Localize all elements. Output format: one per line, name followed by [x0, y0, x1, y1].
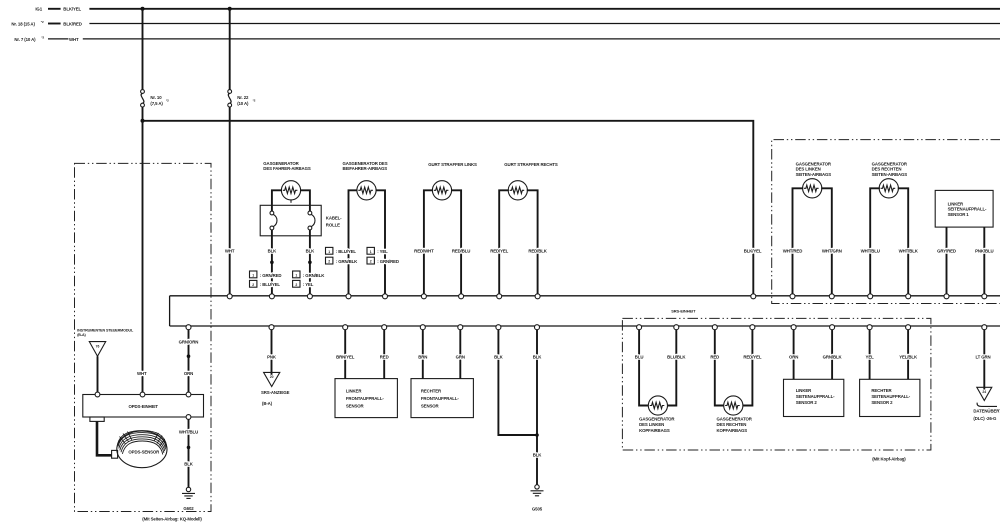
svg-text:1: 1 [328, 250, 330, 254]
svg-text:GASGENERATOR: GASGENERATOR [796, 161, 832, 166]
SRS-Einheit left edge [169, 296, 171, 326]
wire WHT/BLK to SRS [898, 188, 908, 294]
svg-text:SEITENAUFPRALL-: SEITENAUFPRALL- [871, 394, 910, 399]
svg-text:RECHTER: RECHTER [871, 388, 892, 393]
wire PNK to SRS-Anzeige [271, 328, 273, 374]
wire WHT to OPDS-Einheit [142, 121, 144, 392]
ground G505 [535, 485, 539, 489]
wire RED/BLK to SRS [527, 190, 538, 294]
svg-text:ORN: ORN [789, 355, 798, 360]
squib resistor (right side airbag) [879, 179, 898, 198]
wire BLU/BLK [667, 329, 676, 405]
wire RED/YEL [743, 329, 753, 405]
wire RED/BLU to SRS [451, 190, 461, 294]
stub wire Nr.18 [48, 23, 61, 25]
wire BLK driver right to SRS [309, 230, 311, 294]
SRS-Einheit top edge [170, 295, 1000, 297]
node junction bus/branch2 [228, 7, 232, 11]
svg-text:: GRN/BLK: : GRN/BLK [336, 259, 358, 264]
pin connector OPDS bottom [186, 415, 191, 420]
wire BRN [422, 328, 424, 378]
svg-text:RED/YEL: RED/YEL [490, 248, 508, 253]
svg-text:76: 76 [96, 344, 100, 348]
svg-text:RED/BLU: RED/BLU [452, 248, 470, 253]
svg-text:G505: G505 [532, 507, 543, 512]
svg-text:(Mit Kopf-Airbag): (Mit Kopf-Airbag) [872, 456, 906, 461]
squib resistor (right head airbag) [724, 396, 743, 415]
svg-text:SENSOR 2: SENSOR 2 [796, 400, 818, 405]
svg-text:INSTRUMENTEN STEUERMODUL: INSTRUMENTEN STEUERMODUL [77, 328, 134, 332]
svg-text:GASGENERATOR DES: GASGENERATOR DES [343, 161, 388, 166]
svg-text:SENSOR 2: SENSOR 2 [871, 400, 893, 405]
node splice GRN/ORN-ORN [187, 354, 191, 358]
pin connectors SRS top edge [227, 294, 987, 299]
stub wire Nr.7 [48, 38, 68, 40]
svg-text:SENSOR 1: SENSOR 1 [948, 212, 970, 217]
svg-text:GRN/BLK: GRN/BLK [823, 355, 843, 360]
wire WHT/RED to SRS [793, 188, 804, 294]
svg-text:SRS-ANZEIGE: SRS-ANZEIGE [261, 390, 290, 395]
wire bus WHT (Nr. 7) [83, 38, 1000, 40]
svg-text:: GRN/BLK: : GRN/BLK [303, 273, 325, 278]
svg-text:WHT/RED: WHT/RED [783, 248, 802, 253]
wire bus BLK/YEL (IG1) [89, 8, 1000, 10]
svg-text:WHT/BLU: WHT/BLU [861, 248, 880, 253]
svg-text:: YEL: : YEL [377, 249, 388, 254]
svg-text:: YEL: : YEL [303, 282, 314, 287]
fuse Nr. 10 (7,5 A) [141, 90, 170, 107]
wire PNK/BLU to SRS [983, 227, 985, 294]
svg-text:: BLU/YEL: : BLU/YEL [336, 249, 357, 254]
squib resistor (driver airbag) [281, 181, 300, 200]
svg-text:IG1: IG1 [35, 7, 42, 12]
svg-text:BLK: BLK [184, 461, 194, 466]
svg-text:24: 24 [982, 390, 986, 394]
svg-text:BLK/YEL: BLK/YEL [63, 7, 81, 12]
svg-text:PNK: PNK [267, 355, 277, 360]
wire BLK right to ground [536, 328, 538, 484]
svg-text:1: 1 [370, 250, 372, 254]
svg-text:SEITEN-AIRBAGS: SEITEN-AIRBAGS [872, 172, 908, 177]
svg-text:2: 2 [370, 260, 372, 264]
svg-text:BLK: BLK [268, 248, 278, 253]
wire to OPDS-Einheit [97, 356, 99, 392]
svg-text:BLK/RED: BLK/RED [63, 21, 81, 26]
wire GRN [459, 328, 461, 378]
svg-text:RED/WHT: RED/WHT [414, 248, 434, 253]
wire bus BLK/RED (Nr. 18) [89, 23, 1000, 25]
pin connectors SRS bottom edge [186, 325, 987, 330]
pin labels driver right [293, 271, 326, 287]
svg-text:YEL: YEL [866, 355, 875, 360]
svg-text:*2: *2 [253, 99, 256, 103]
svg-text:*2: *2 [166, 99, 169, 103]
svg-text:LINKER: LINKER [796, 388, 812, 393]
svg-text:DES RECHTEN: DES RECHTEN [717, 422, 747, 427]
svg-text:2: 2 [252, 283, 254, 287]
wire passenger squib right to SRS [376, 190, 386, 294]
svg-text:WHT/BLK: WHT/BLK [899, 248, 919, 253]
wire driver squib right [300, 190, 310, 212]
wire BLU [639, 329, 648, 405]
svg-text:LINKER: LINKER [346, 388, 362, 393]
svg-text:WHT: WHT [69, 37, 79, 42]
wire RED/YEL to SRS [499, 190, 509, 294]
wire WHT/BLU to SRS [870, 188, 880, 294]
node splice driver left [270, 261, 274, 265]
svg-text:GRN: GRN [456, 355, 465, 360]
wire stub squib to cable reel [290, 200, 292, 203]
harness to sensor [97, 421, 112, 455]
svg-text:GASGENERATOR: GASGENERATOR [639, 416, 675, 421]
connector triangle 20 (SRS-Anzeige) [264, 372, 280, 386]
svg-text:*2: *2 [41, 36, 44, 40]
pin labels passenger left [326, 247, 359, 264]
squib resistor (tensioner left) [432, 181, 451, 200]
node junction bus/branch1 [141, 7, 145, 11]
svg-text:GRY/RED: GRY/RED [937, 248, 956, 253]
svg-text:BLU/BLK: BLU/BLK [667, 355, 686, 360]
svg-text:DATENÜBERTR: DATENÜBERTR [973, 408, 1000, 413]
svg-text:WHT/GRN: WHT/GRN [822, 248, 842, 253]
svg-text:BLK: BLK [533, 453, 543, 458]
svg-text:RED/YEL: RED/YEL [743, 355, 761, 360]
svg-text:DES FAHRER-AIRBAGS: DES FAHRER-AIRBAGS [263, 166, 311, 171]
svg-text:RED: RED [380, 355, 389, 360]
wire YEL/BLK [907, 329, 909, 379]
cable reel (Kabelrolle) [260, 205, 342, 236]
wire branch1 to junction [142, 107, 144, 121]
svg-text:OPDS-EINHEIT: OPDS-EINHEIT [128, 404, 158, 409]
SRS-Einheit bottom edge [170, 325, 1000, 327]
svg-text:PNK/BLU: PNK/BLU [975, 248, 993, 253]
wire GRY/RED to SRS [946, 227, 948, 294]
wire RED [383, 328, 385, 378]
svg-text:(DLC) -26-G: (DLC) -26-G [973, 416, 997, 421]
svg-text:YEL/BLK: YEL/BLK [899, 355, 918, 360]
bracket [977, 403, 997, 407]
svg-text:Nr. 10: Nr. 10 [150, 95, 162, 100]
wire driver squib left [272, 190, 282, 212]
OPDS sensor pad [117, 431, 167, 468]
node splice BLK [535, 433, 539, 437]
stub wire IG1 [48, 8, 61, 10]
svg-text:GASGENERATOR: GASGENERATOR [872, 161, 908, 166]
svg-text:1: 1 [295, 273, 297, 277]
svg-text:Nr. 7 (10 A): Nr. 7 (10 A) [14, 37, 36, 42]
wire branch2 upper [229, 9, 231, 90]
wire WHT to SRS unit [229, 107, 231, 294]
svg-text:WHT: WHT [137, 371, 147, 376]
svg-text:GASGENERATOR: GASGENERATOR [717, 416, 753, 421]
squib resistor (tensioner right) [508, 181, 527, 200]
svg-text:BLK: BLK [306, 248, 316, 253]
svg-text:RECHTER: RECHTER [421, 388, 442, 393]
svg-text:RED/BLK: RED/BLK [528, 248, 547, 253]
svg-text:GRN/ORN: GRN/ORN [179, 339, 199, 344]
svg-text:SENSOR: SENSOR [346, 403, 365, 408]
svg-text:BLK/YEL: BLK/YEL [744, 248, 762, 253]
svg-text:1: 1 [252, 273, 254, 277]
wire branch1 upper [142, 9, 144, 90]
svg-text:(10 A): (10 A) [237, 101, 249, 106]
svg-text:: BLU/YEL: : BLU/YEL [260, 282, 281, 287]
connector triangle 24 (DLC) [977, 387, 992, 400]
svg-text:(7,5 A): (7,5 A) [150, 101, 163, 106]
svg-text:G602: G602 [183, 506, 194, 511]
pin labels passenger right [367, 247, 399, 264]
svg-text:SEITENAUFPRALL-: SEITENAUFPRALL- [796, 394, 835, 399]
svg-text:GURT STRAFFER RECHTS: GURT STRAFFER RECHTS [504, 162, 558, 167]
svg-text:BLK: BLK [533, 355, 543, 360]
wire BLK left [498, 328, 537, 435]
svg-text:BLK: BLK [494, 355, 504, 360]
wire WHT/BLU OPDS to ground [188, 419, 190, 487]
svg-text:2: 2 [295, 283, 297, 287]
svg-text:LT GRN: LT GRN [975, 355, 990, 360]
svg-text:2: 2 [328, 260, 330, 264]
svg-text:SEITEN-AIRBAGS: SEITEN-AIRBAGS [796, 172, 832, 177]
svg-text:(B-A): (B-A) [262, 401, 273, 406]
svg-text:KOPFAIRBAGS: KOPFAIRBAGS [639, 428, 670, 433]
wire WHT/GRN to SRS [821, 188, 832, 294]
pin labels driver left [250, 271, 282, 287]
svg-text:GURT STRAFFER LINKS: GURT STRAFFER LINKS [428, 162, 477, 167]
svg-text:FRONTAUFPRALL-: FRONTAUFPRALL- [421, 396, 459, 401]
svg-text:DES LINKEN: DES LINKEN [796, 167, 821, 172]
svg-text:WHT/BLU: WHT/BLU [179, 430, 198, 435]
wire GRN/BLK [831, 329, 833, 379]
node splice driver right [308, 261, 312, 265]
node splice WHT/BLU-BLK [187, 446, 191, 450]
svg-text:(Mit Seiten-Airbag: KQ-Modell): (Mit Seiten-Airbag: KQ-Modell) [142, 516, 202, 521]
wire YEL [869, 329, 871, 379]
wire RED [715, 329, 724, 405]
svg-text:KABEL-: KABEL- [326, 215, 342, 220]
node junction H1 [141, 119, 145, 123]
svg-text:SRS-EINHEIT: SRS-EINHEIT [671, 308, 696, 313]
svg-text:Nr. 22: Nr. 22 [237, 95, 249, 100]
svg-text:BEIFAHRER-AIRBAGS: BEIFAHRER-AIRBAGS [343, 166, 388, 171]
svg-text:20: 20 [270, 375, 274, 379]
svg-text:OPDS-SENSOR: OPDS-SENSOR [128, 449, 160, 454]
squib resistor (left side airbag) [803, 179, 822, 198]
wire GRN/ORN SRS to OPDS [188, 328, 190, 392]
svg-text:DES LINKEN: DES LINKEN [639, 422, 664, 427]
fuse Nr. 22 (10 A) [228, 90, 256, 107]
svg-text:BRN: BRN [418, 355, 427, 360]
svg-text:GASGENERATOR: GASGENERATOR [263, 161, 299, 166]
wire passenger squib left to SRS [349, 190, 358, 294]
wire LT GRN [983, 329, 985, 389]
connector triangle 76 [89, 342, 105, 357]
svg-text:ORN: ORN [184, 371, 193, 376]
wire BRN/YEL [344, 328, 346, 378]
svg-text:*2: *2 [41, 20, 44, 24]
svg-text:DES RECHTEN: DES RECHTEN [872, 167, 902, 172]
squib resistor (left head airbag) [648, 396, 667, 415]
pin connectors OPDS top [95, 392, 100, 397]
svg-text:FRONTAUFPRALL-: FRONTAUFPRALL- [346, 396, 384, 401]
svg-text:: GRN/RED: : GRN/RED [377, 259, 399, 264]
wire RED/WHT to SRS [424, 190, 433, 294]
svg-text:LINKER: LINKER [948, 201, 964, 206]
svg-text:Nr. 18 (15 A): Nr. 18 (15 A) [11, 21, 35, 26]
svg-text:ROLLE: ROLLE [326, 222, 340, 227]
wire BLK/YEL feed (horizontal run to SRS) [143, 121, 754, 294]
svg-text:RED: RED [710, 355, 719, 360]
svg-text:(B-A): (B-A) [77, 333, 86, 337]
wire ORN [793, 329, 795, 379]
svg-text:KOPFAIRBAGS: KOPFAIRBAGS [717, 428, 748, 433]
ground G602 [182, 487, 195, 511]
wire BLK driver left to SRS [271, 230, 273, 294]
squib resistor (passenger airbag) [357, 181, 376, 200]
svg-text:WHT: WHT [225, 248, 235, 253]
mounting block [90, 417, 104, 421]
svg-text:BLU: BLU [635, 355, 644, 360]
svg-text:: GRN/RED: : GRN/RED [260, 273, 282, 278]
svg-text:SENSOR: SENSOR [421, 403, 440, 408]
svg-text:BRN/YEL: BRN/YEL [336, 355, 355, 360]
svg-text:SEITENAUFPRALL-: SEITENAUFPRALL- [948, 207, 987, 212]
